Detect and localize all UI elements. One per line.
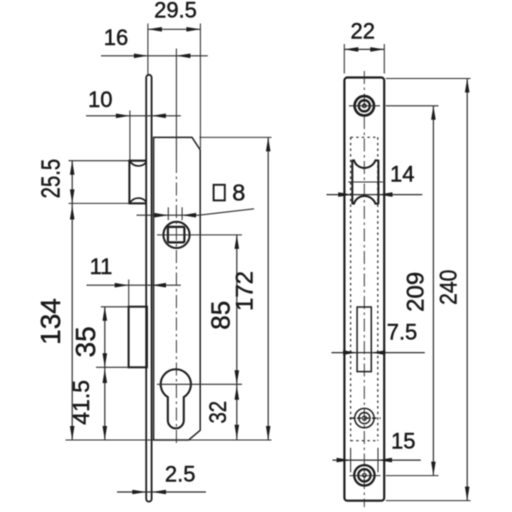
middle screw hole	[355, 408, 374, 427]
left view: latch bolt	[129, 161, 147, 204]
svg-text:7.5: 7.5	[387, 320, 418, 345]
deadbolt slot in faceplate	[357, 307, 371, 372]
extension line case bottom (left view)	[66, 439, 272, 441]
latch bolt bevel arcs	[130, 161, 147, 202]
svg-text:15: 15	[391, 429, 415, 454]
svg-text:14: 14	[390, 162, 414, 187]
hidden lock case (dashed)	[351, 137, 378, 440]
right view: faceplate front	[344, 78, 384, 501]
svg-text:10: 10	[88, 87, 112, 112]
svg-text:11: 11	[90, 254, 113, 279]
svg-text:35: 35	[70, 326, 101, 357]
left view: follower circle	[163, 222, 189, 248]
right view vertical center line	[363, 71, 365, 507]
svg-text:134: 134	[35, 298, 66, 345]
left view: lock case outline	[154, 137, 201, 440]
svg-text:240: 240	[435, 270, 462, 305]
svg-text:32: 32	[205, 401, 232, 424]
cylinder horizontal center line	[157, 383, 242, 385]
left view: deadbolt	[129, 307, 147, 368]
extension line case top (left view)	[199, 136, 271, 138]
left view: square spindle hole 8mm	[168, 227, 185, 243]
left view: faceplate strip (side view)	[146, 75, 151, 502]
svg-text:25.5: 25.5	[36, 159, 65, 198]
latch front view	[352, 160, 378, 204]
left view: euro profile cylinder hole	[161, 369, 191, 428]
latch horizontal center line	[348, 181, 383, 183]
svg-text:22: 22	[351, 18, 375, 43]
svg-text:16: 16	[104, 25, 128, 50]
bottom screw hole	[354, 465, 374, 485]
svg-text:41.5: 41.5	[68, 380, 94, 425]
square hole width ticks	[167, 207, 169, 220]
svg-text:29.5: 29.5	[154, 0, 197, 23]
top screw hole	[355, 96, 374, 115]
svg-text:8: 8	[232, 180, 245, 206]
vertical center line (spindle axis, left view)	[175, 49, 177, 161]
svg-text:172: 172	[231, 271, 258, 311]
square hole dimension line and leader	[137, 209, 255, 215]
follower horizontal center line	[157, 234, 242, 236]
svg-text:209: 209	[403, 272, 430, 312]
extension lines right view	[386, 78, 471, 80]
square symbol of label 8	[214, 185, 225, 201]
svg-text:2.5: 2.5	[165, 462, 196, 487]
